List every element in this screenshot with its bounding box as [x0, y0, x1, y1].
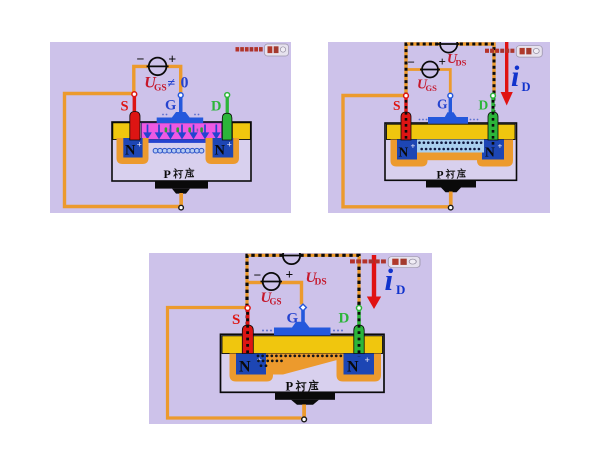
svg-text:D: D	[479, 98, 489, 113]
N+ region left blue (panel 2)	[397, 140, 417, 160]
gate electrode G blue (panel 2)	[449, 98, 452, 113]
svg-text:+: +	[168, 53, 176, 68]
drain current arrow iD (panel 3)	[372, 255, 376, 298]
device body P substrate block (panel 2)	[385, 123, 517, 180]
N+ region left blue (panel 1)	[123, 138, 142, 158]
oxide layer yellow bar (panel 3)	[222, 336, 383, 354]
watermark (panel 2)	[485, 46, 542, 57]
gate electrode G blue (panel 1)	[179, 97, 183, 113]
substrate contact bar (panel 2)	[426, 180, 476, 187]
electron dots in channel (panel 2)	[418, 141, 482, 150]
svg-text:−: −	[408, 55, 415, 70]
N+ well right orange surround (panel 2)	[477, 140, 513, 167]
substrate lead (panel 3)	[302, 404, 306, 418]
substrate contact bar (panel 3)	[275, 392, 335, 400]
svg-text:D: D	[339, 311, 350, 327]
svg-text:≠: ≠	[168, 77, 176, 92]
drain electrode D green (panel 2)	[491, 98, 494, 114]
electron dots in pinched channel (panel 3)	[257, 355, 343, 368]
N+ region right blue (panel 2)	[482, 140, 504, 160]
oxide pad left yellow (panel 1)	[113, 123, 131, 140]
terminal B substrate (panel 2)	[448, 205, 453, 210]
terminal D (panel 1)	[225, 93, 230, 98]
N+ well right orange surround (panel 1)	[206, 138, 240, 164]
svg-text:−: −	[137, 53, 145, 68]
substrate contact bar (panel 1)	[155, 181, 208, 189]
oxide pad right yellow (panel 1)	[232, 123, 250, 140]
svg-text:S: S	[232, 312, 240, 328]
svg-text:−: −	[254, 268, 262, 283]
hole carriers green marks in channel (panel 1)	[165, 127, 203, 132]
svg-text:GS: GS	[154, 84, 167, 94]
gate electrode G blue (panel 3)	[301, 310, 305, 324]
terminal B substrate (panel 1)	[179, 205, 184, 210]
wire: source-to-substrate loop (panel 3)	[168, 308, 302, 419]
terminal G (panel 2)	[448, 93, 453, 98]
N+ well right orange surround (panel 3)	[337, 354, 382, 382]
source electrode S red (panel 1)	[133, 97, 137, 114]
dotted drain current path (panel 2)	[406, 44, 494, 148]
terminal G (panel 1)	[178, 93, 183, 98]
orange band under channel (panel 2)	[423, 153, 479, 161]
panel 3 background	[149, 253, 432, 424]
svg-text:N: N	[215, 143, 226, 159]
svg-text:+: +	[137, 140, 142, 150]
svg-text:S: S	[121, 99, 129, 115]
panel 1 background	[50, 42, 291, 213]
wire: source-to-substrate loop (panel 2)	[343, 96, 449, 207]
svg-text:DS: DS	[315, 278, 327, 288]
electron chain between wells (panel 1)	[153, 148, 204, 153]
svg-text:N: N	[399, 145, 409, 160]
svg-text:P: P	[164, 167, 171, 181]
oxide layer yellow bar (panel 2)	[387, 124, 516, 139]
svg-text:GS: GS	[426, 83, 438, 93]
substrate lead (panel 1)	[179, 193, 183, 207]
gate flank dots (panel 1)	[162, 114, 199, 116]
watermark (panel 1)	[236, 44, 289, 56]
svg-text:GS: GS	[270, 297, 282, 307]
svg-text:+: +	[498, 141, 503, 151]
terminal S (panel 3)	[245, 306, 250, 311]
substrate lead (panel 2)	[449, 192, 453, 206]
drain electrode D green (panel 1)	[226, 97, 229, 115]
svg-text:P: P	[437, 169, 444, 181]
wire: battery left lead to S (panel 1)	[134, 66, 149, 92]
svg-text:+: +	[286, 267, 294, 282]
panel 2 background	[328, 42, 550, 213]
svg-text:0: 0	[181, 75, 189, 92]
terminal S (panel 1)	[132, 92, 137, 97]
svg-text:P: P	[286, 380, 294, 394]
svg-text:N: N	[239, 359, 251, 376]
wire: source-to-substrate loop (panel 1)	[65, 94, 180, 207]
N+ region right blue (panel 3)	[344, 354, 375, 375]
battery UGS source symbol (panel 2)	[422, 62, 438, 78]
svg-text:+: +	[411, 141, 416, 151]
dotted drain current path (panel 3)	[247, 255, 359, 357]
svg-text:G: G	[165, 98, 176, 114]
source electrode S red (panel 2)	[404, 98, 407, 114]
wire: UGS battery leads (panel 3)	[248, 281, 263, 284]
N+ region right blue (panel 1)	[213, 138, 234, 158]
induced layer dark strip under channel (panel 1)	[147, 140, 217, 143]
pinched channel orange wedge (panel 3)	[266, 354, 344, 375]
terminal D (panel 2)	[491, 93, 496, 98]
terminal B substrate (panel 3)	[302, 417, 307, 422]
source electrode S red (panel 3)	[246, 310, 250, 327]
svg-text:D: D	[522, 80, 531, 94]
wire: UGS battery leads (panel 2)	[407, 68, 423, 71]
drain current arrow iD (panel 2)	[505, 42, 508, 93]
terminal D (panel 3)	[357, 306, 362, 311]
battery UGS source symbol (panel 3)	[263, 273, 280, 290]
svg-text:G: G	[437, 97, 448, 112]
svg-text:N: N	[347, 359, 359, 376]
svg-text:D: D	[211, 99, 221, 115]
svg-text:+: +	[227, 140, 232, 150]
device body P substrate block (panel 3)	[221, 334, 385, 392]
terminal S (panel 2)	[404, 93, 409, 98]
svg-text:N: N	[485, 145, 495, 160]
svg-text:G: G	[287, 311, 299, 327]
svg-text:i: i	[511, 60, 520, 93]
battery UDS source symbol on dotted loop (panel 3)	[283, 247, 300, 264]
drain electrode D green (panel 3)	[357, 310, 361, 327]
svg-text:+: +	[365, 356, 370, 366]
inversion channel light blue (panel 2)	[417, 140, 484, 153]
depletion channel pink region (panel 1)	[141, 123, 221, 140]
battery UGS source symbol (panel 1)	[149, 58, 167, 76]
battery UDS source symbol on dotted loop (panel 2)	[440, 35, 457, 52]
N+ region left blue (panel 3)	[236, 354, 266, 375]
terminal G (panel 3)	[300, 304, 307, 311]
field arrows in channel (panel 1)	[145, 125, 219, 138]
wire: battery right lead to G (panel 1)	[166, 66, 180, 92]
N+ well left orange surround (panel 3)	[230, 354, 274, 382]
svg-text:D: D	[396, 282, 405, 297]
svg-text:N: N	[125, 143, 136, 159]
device body P substrate block (panel 1)	[112, 122, 251, 181]
gate flank dots (panel 2)	[419, 119, 479, 121]
svg-text:DS: DS	[456, 58, 467, 68]
watermark (panel 3)	[350, 257, 420, 268]
svg-text:S: S	[393, 98, 401, 113]
N+ well left orange surround (panel 1)	[117, 138, 149, 164]
gate flank dots (panel 3)	[262, 330, 343, 332]
svg-text:+: +	[439, 54, 446, 69]
N+ well left orange surround (panel 2)	[391, 140, 428, 167]
